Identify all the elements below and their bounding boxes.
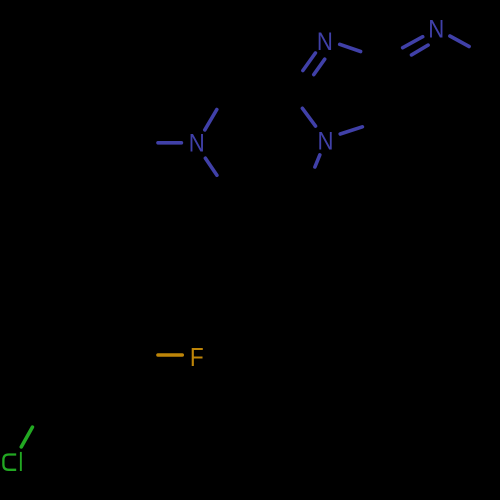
wire: F bond half [158, 353, 182, 357]
svg-text:N: N [428, 16, 444, 44]
svg-text:N: N [317, 128, 333, 156]
wire: N3=C2 double bond outer line [303, 53, 316, 71]
wire: imidazole N1 substituent bond half (down-left) [315, 155, 320, 167]
svg-text:N: N [317, 29, 333, 57]
wire: Cl bond half [21, 427, 32, 447]
wire: imidazole N1-C7a bond half [340, 127, 362, 134]
wire: pyridine N4-C5 bond half [450, 36, 469, 47]
node N4 (pyridine) [428, 16, 444, 44]
svg-text:N: N [189, 130, 205, 158]
wire: pyridine N4=C3a double bond outer line [403, 37, 423, 48]
node F (fluorine) [190, 344, 204, 373]
node Cl (chlorine) [3, 455, 16, 470]
node N3 (imidazole) [317, 29, 333, 57]
wire: amine N left bond half (to CH3) [158, 141, 181, 145]
wire: pyridine N4=C3a double bond inner line [412, 45, 429, 55]
node N1 (imidazole) [317, 128, 333, 156]
wire: imidazole N1-C2 bond half [302, 108, 315, 126]
wire: imidazole N3-C3a bond half [340, 44, 361, 51]
wire: amine N upper-right bond half (to CH2) [205, 110, 217, 130]
node Cl letter l stem [20, 452, 22, 471]
node N (amine nitrogen) [189, 130, 205, 158]
wire: N3=C2 double bond inner line [314, 59, 325, 74]
wire: amine N lower-right bond half (to CH2) [205, 158, 217, 175]
svg-text:F: F [190, 344, 204, 373]
